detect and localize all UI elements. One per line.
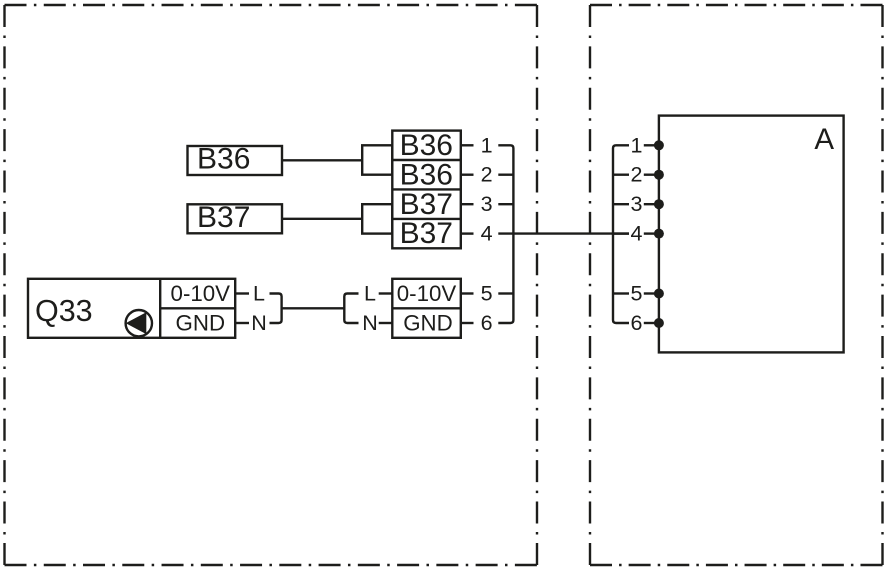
pin stubs number-to-terminal (controller side) xyxy=(644,145,659,323)
svg-text:4: 4 xyxy=(481,222,493,246)
terminal link B37 (pins 3-4) xyxy=(362,204,392,233)
svg-text:B37: B37 xyxy=(400,188,453,221)
svg-text:B37: B37 xyxy=(197,201,250,234)
svg-text:0-10V: 0-10V xyxy=(397,281,457,306)
svg-text:3: 3 xyxy=(481,192,493,216)
wire pin 4 interconnect to A xyxy=(498,232,629,234)
right dashed enclosure xyxy=(590,5,883,565)
svg-text:3: 3 xyxy=(631,192,643,216)
svg-text:2: 2 xyxy=(481,163,493,187)
svg-text:L: L xyxy=(253,282,265,306)
pump symbol xyxy=(126,310,152,336)
svg-text:5: 5 xyxy=(631,282,643,306)
bus right with pin stubs xyxy=(613,145,629,323)
svg-text:1: 1 xyxy=(481,133,493,157)
terminal block 0-10V/GND xyxy=(392,279,461,338)
terminal block B36/B36/B37/B37 xyxy=(392,129,461,250)
svg-text:L: L xyxy=(364,282,376,306)
svg-text:2: 2 xyxy=(631,163,643,187)
svg-text:B36: B36 xyxy=(400,158,453,191)
sensor B36 xyxy=(188,143,283,176)
bracket joining L and N (terminal side) xyxy=(344,294,358,324)
svg-text:GND: GND xyxy=(403,311,453,336)
svg-text:6: 6 xyxy=(481,311,493,335)
svg-text:GND: GND xyxy=(176,311,226,336)
pin numbers 1-6 (left) xyxy=(481,133,493,335)
cable wire between brackets xyxy=(282,307,345,309)
svg-text:A: A xyxy=(814,123,834,156)
svg-text:6: 6 xyxy=(631,311,643,335)
wire N stub from Q33 xyxy=(235,322,249,324)
wire L stub from Q33 xyxy=(235,292,249,294)
controller A xyxy=(659,116,844,353)
svg-text:B36: B36 xyxy=(197,143,250,176)
svg-text:4: 4 xyxy=(631,222,643,246)
svg-text:N: N xyxy=(362,311,378,335)
wire L stub to 0-10V terminal xyxy=(379,292,393,294)
wire B37 to terminal link xyxy=(282,218,362,220)
pump Q33 xyxy=(28,279,235,338)
svg-text:1: 1 xyxy=(631,133,643,157)
svg-text:B37: B37 xyxy=(400,217,453,250)
svg-text:Q33: Q33 xyxy=(35,294,93,328)
bus left with pin stubs xyxy=(498,145,513,323)
sensor B37 xyxy=(188,201,283,234)
left dashed enclosure xyxy=(5,5,538,565)
svg-text:B36: B36 xyxy=(400,129,453,162)
wire N stub to GND terminal xyxy=(379,322,393,324)
terminal link B36 (pins 1-2) xyxy=(362,145,392,174)
wire B36 to terminal link xyxy=(282,159,362,161)
pin stubs block-to-number 1-6 (left) xyxy=(461,145,474,323)
svg-text:N: N xyxy=(251,311,267,335)
pin numbers 1-6 (controller side) xyxy=(631,133,643,335)
svg-text:5: 5 xyxy=(481,282,493,306)
svg-text:0-10V: 0-10V xyxy=(171,281,231,306)
bracket joining L and N (Q33 side) xyxy=(270,294,282,324)
terminal dots 1-6 on controller A xyxy=(654,140,664,328)
